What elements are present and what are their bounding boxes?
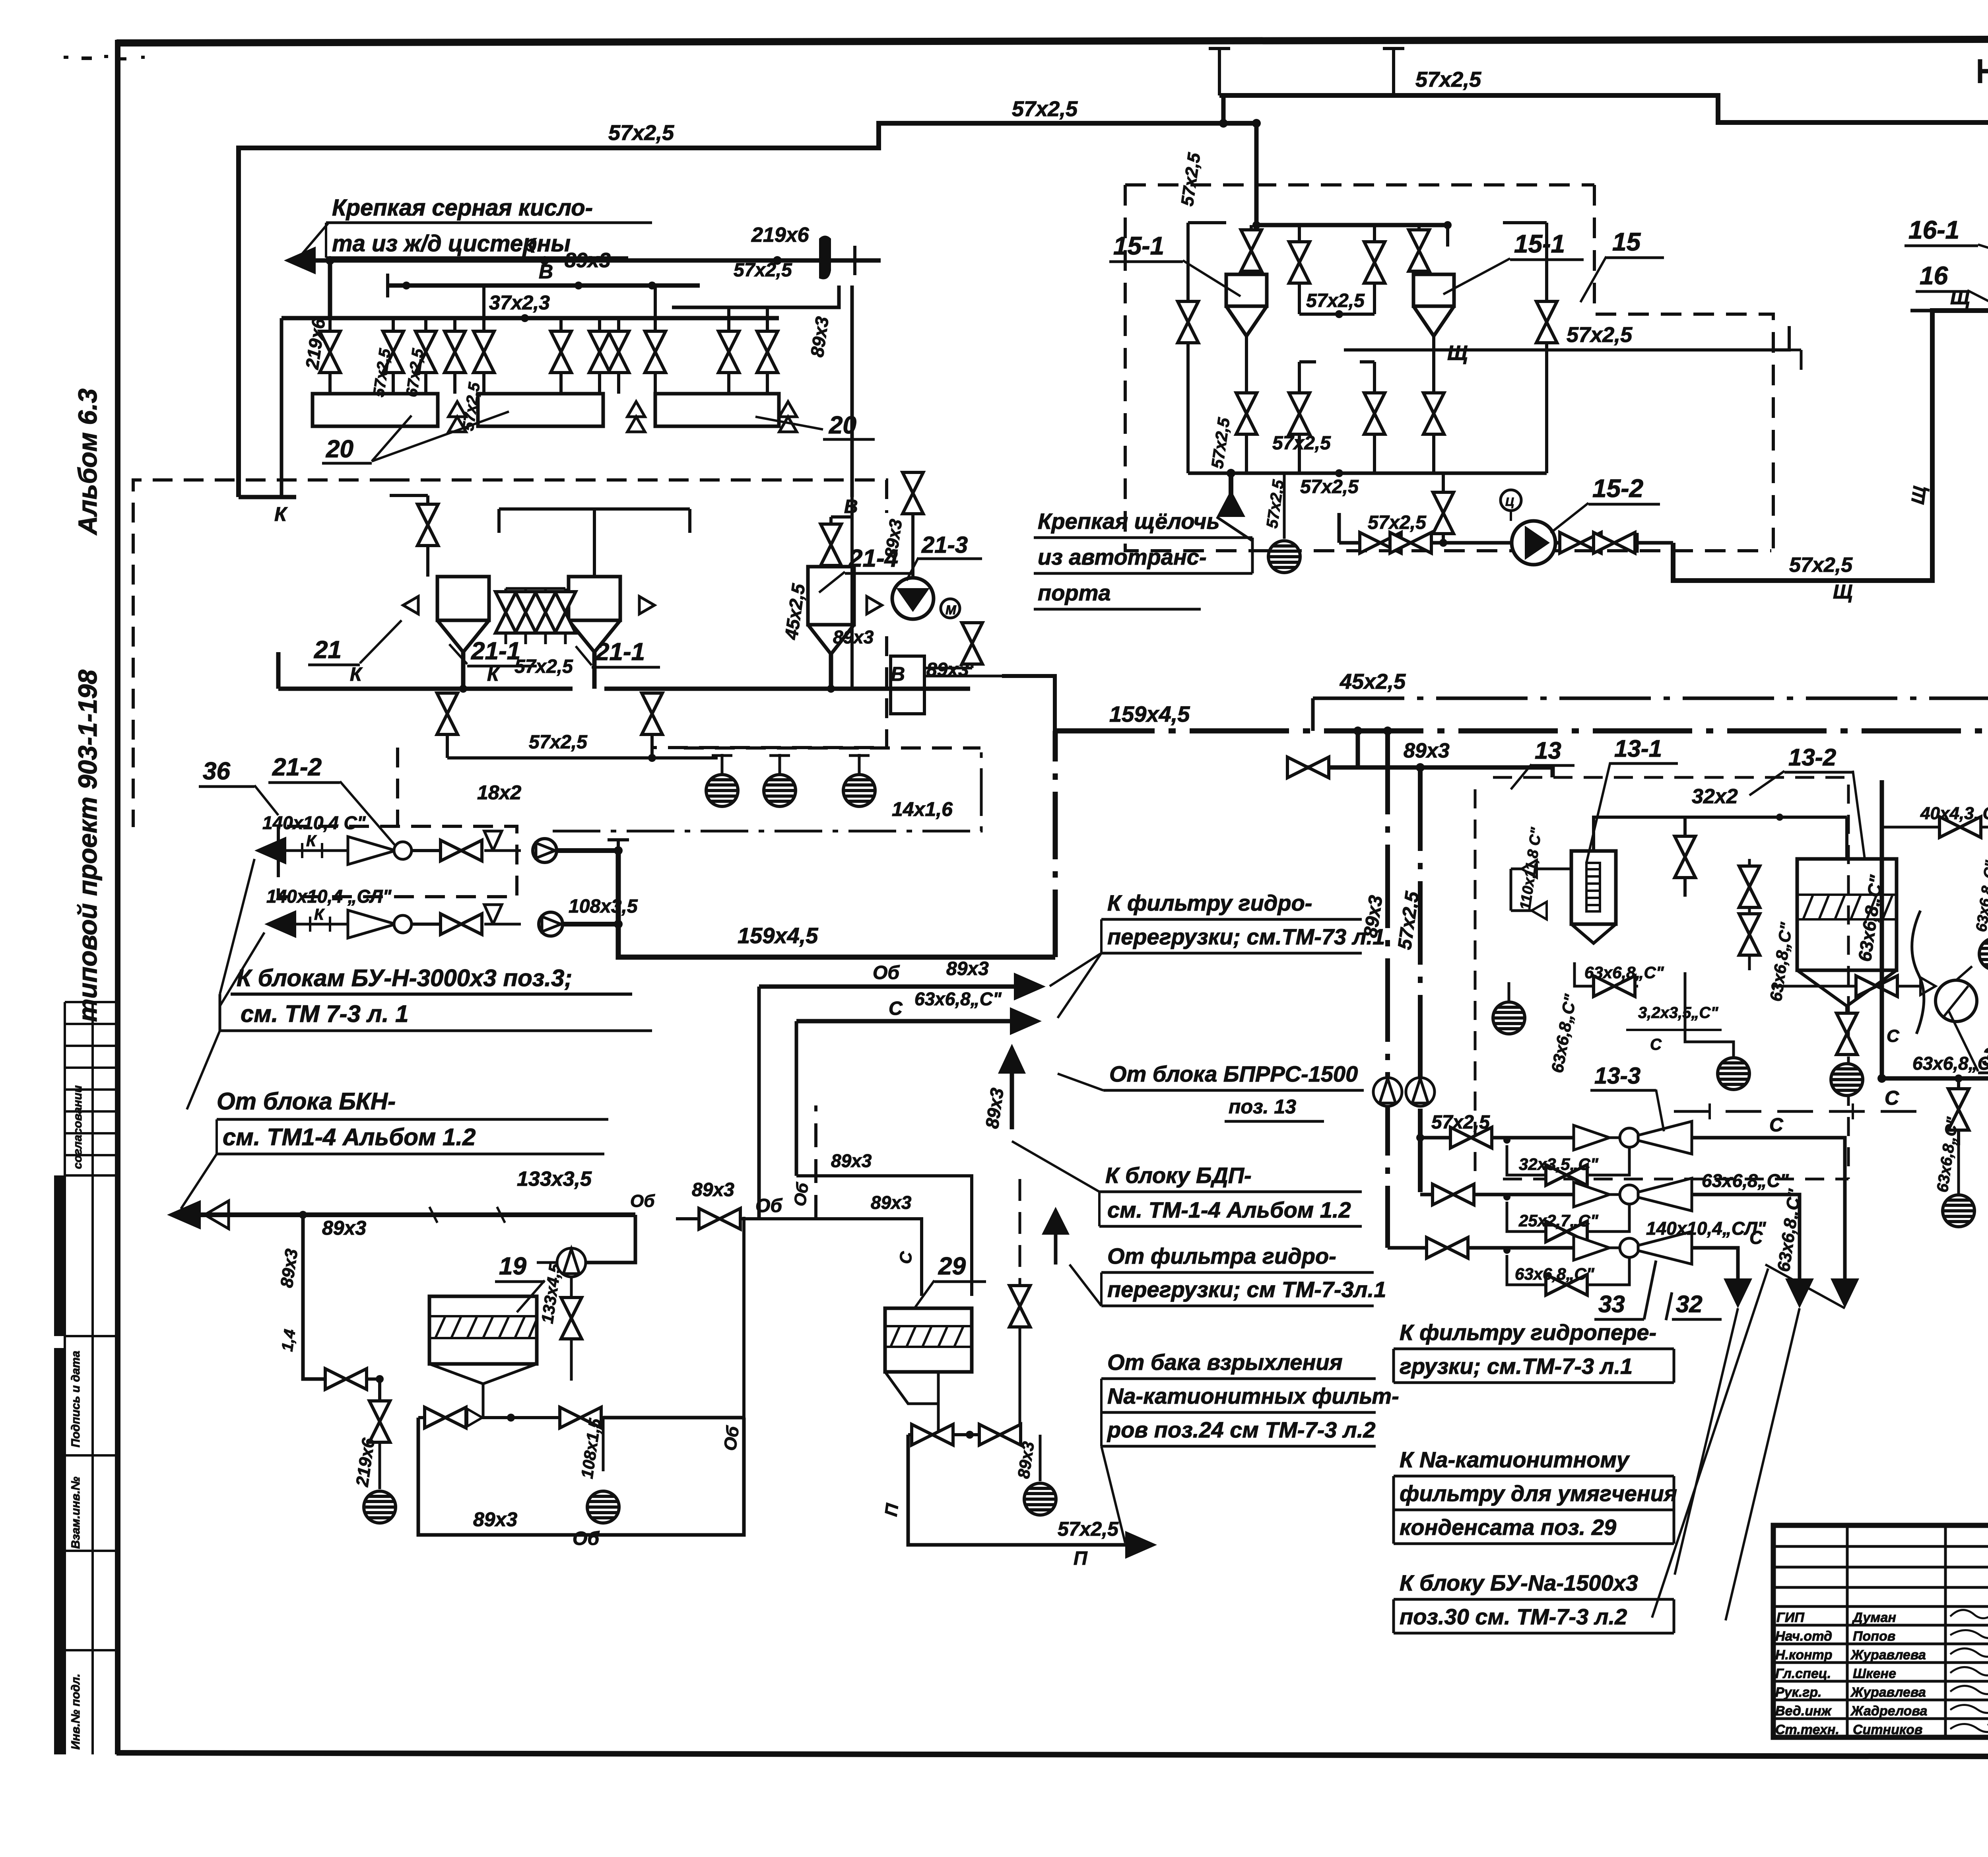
wire: 57x2,5 between tanks — [1299, 313, 1375, 316]
valve — [821, 524, 841, 565]
valve — [1939, 817, 1981, 837]
svg-text:57x2,5: 57x2,5 — [1789, 554, 1853, 577]
drain strainer — [1268, 541, 1300, 573]
svg-text:К: К — [523, 234, 537, 257]
svg-text:В: В — [891, 663, 905, 685]
arrow up-left of От фильтра — [1054, 1235, 1058, 1265]
drain strainer — [706, 775, 738, 806]
svg-text:С: С — [889, 998, 903, 1019]
wire: Об line from 19 up-right — [676, 1217, 816, 1418]
svg-text:140x10,4 „СЛ": 140x10,4 „СЛ" — [266, 886, 392, 907]
svg-text:16-1: 16-1 — [1908, 216, 1959, 244]
svg-text:57x2,5: 57x2,5 — [1567, 323, 1633, 347]
filter 13-1 small — [1571, 851, 1616, 924]
risers from manifold to tanks with valves — [330, 286, 767, 394]
svg-text:К: К — [306, 832, 317, 850]
svg-text:159x4,5: 159x4,5 — [738, 923, 818, 948]
valve — [383, 331, 404, 373]
wire: pump suction line — [1339, 513, 1511, 543]
side verticals with valves — [1188, 223, 1547, 473]
svg-text:Об: Об — [573, 1528, 600, 1549]
valve — [1594, 532, 1635, 553]
valve — [1433, 492, 1454, 534]
valve — [320, 331, 340, 373]
svg-text:21-3: 21-3 — [921, 532, 968, 558]
svg-text:89x3: 89x3 — [565, 249, 611, 272]
wire: pump 18 line — [1882, 1076, 1988, 1081]
drain strainer — [1831, 1064, 1863, 1096]
valve — [699, 1208, 740, 1229]
Об / С arrows into texts — [759, 985, 1014, 989]
check triangles between tanks — [448, 402, 797, 432]
valve — [474, 331, 494, 373]
pump on 19 — [584, 1215, 635, 1263]
wire: alkali inlet drop — [1229, 473, 1233, 499]
svg-text:К фильтру гидропере-: К фильтру гидропере- — [1400, 1320, 1656, 1345]
svg-text:32x2: 32x2 — [1692, 785, 1738, 808]
hatched circle top — [1979, 938, 1988, 970]
drain with stem — [1283, 473, 1286, 539]
row 2 — [264, 910, 296, 938]
svg-text:К блоку БДП-: К блоку БДП- — [1105, 1163, 1252, 1188]
wire: riser to top pipe — [1221, 95, 1226, 123]
valve — [535, 592, 556, 633]
valve — [369, 1401, 390, 1442]
valve — [1287, 757, 1329, 778]
main title block — [1773, 1525, 1988, 1737]
drain strainer — [764, 775, 796, 806]
pump 21-3 — [911, 471, 914, 578]
dashed boundary block 15 — [1125, 185, 1773, 551]
4 valves between 21-1 tanks — [495, 592, 516, 633]
signatures squiggles — [1950, 1601, 1988, 1732]
riser with 219x6 drain — [378, 1379, 381, 1416]
pump — [1406, 1078, 1435, 1106]
С dashes — [1674, 1110, 1932, 1113]
valve — [425, 1407, 466, 1428]
svg-text:К: К — [274, 503, 288, 525]
svg-text:перегрузки; см.ТМ-73 л.1: перегрузки; см.ТМ-73 л.1 — [1107, 924, 1385, 949]
svg-text:89x3: 89x3 — [322, 1217, 366, 1239]
svg-text:32: 32 — [1676, 1291, 1703, 1317]
hatched circle near 13 — [1718, 1058, 1749, 1090]
filter 19 — [429, 1296, 537, 1364]
svg-text:порта: порта — [1038, 580, 1111, 605]
long diagonal leaders — [1675, 1265, 1845, 1620]
valve — [589, 331, 610, 373]
svg-text:15-2: 15-2 — [1592, 474, 1643, 503]
valve — [415, 331, 436, 373]
wire: main 159x4,5 dash-dot run — [1055, 728, 1988, 734]
valve — [1409, 230, 1429, 271]
tank 20 row rects — [313, 394, 779, 426]
svg-text:см. ТМ-1-4 Альбом 1.2: см. ТМ-1-4 Альбом 1.2 — [1107, 1197, 1351, 1222]
32x2 line above — [1594, 817, 1685, 851]
arrow K inlet — [284, 247, 316, 274]
wire: K collect line in block 21 — [278, 652, 594, 689]
svg-text:15-1: 15-1 — [1514, 229, 1565, 258]
arrow БКН inlet — [167, 1200, 201, 1230]
svg-text:57x2,5: 57x2,5 — [1058, 1518, 1119, 1540]
wire: 133x3,5 main horizontal — [201, 1212, 635, 1217]
svg-text:Подпись и дата: Подпись и дата — [69, 1351, 82, 1447]
svg-text:159x4,5: 159x4,5 — [1109, 701, 1190, 726]
valve — [1948, 1089, 1969, 1130]
svg-text:89x3: 89x3 — [1404, 739, 1450, 762]
svg-text:89x3: 89x3 — [473, 1508, 517, 1531]
three outlet arrows — [1724, 1278, 1752, 1308]
wire: K line into block 21 — [239, 495, 296, 499]
svg-text:Альбом 6.3: Альбом 6.3 — [73, 388, 102, 536]
wire: end stubs near frame — [1209, 47, 1230, 95]
svg-text:Щ: Щ — [1833, 581, 1852, 603]
wire: П loop — [908, 1435, 1125, 1545]
svg-text:Журавлева: Журавлева — [1850, 1647, 1926, 1663]
wire: bottom manifold — [1188, 472, 1547, 475]
svg-text:Жадрелова: Жадрелова — [1850, 1704, 1927, 1719]
svg-text:К блокам БУ-Н-3000х3 поз.3;: К блокам БУ-Н-3000х3 поз.3; — [237, 965, 572, 991]
svg-text:29: 29 — [938, 1253, 966, 1280]
drain circles row — [712, 754, 870, 775]
svg-text:57x2,5: 57x2,5 — [1431, 1112, 1490, 1133]
svg-text:63x6,8„С": 63x6,8„С" — [1515, 1265, 1595, 1283]
svg-text:Попов: Попов — [1853, 1629, 1895, 1644]
svg-text:Рук.гр.: Рук.гр. — [1775, 1685, 1822, 1700]
svg-text:согласовании: согласовании — [71, 1085, 84, 1169]
wire: big 57x2,5 loop left vertical + top run — [239, 123, 1256, 497]
tank 21-4 — [808, 567, 854, 654]
svg-text:57x2,5: 57x2,5 — [734, 260, 792, 281]
svg-text:16: 16 — [1920, 261, 1948, 290]
svg-text:От бака взрыхления: От бака взрыхления — [1107, 1350, 1343, 1375]
dashed boundary block 13 — [1475, 777, 1848, 1179]
valve — [1837, 1013, 1857, 1055]
svg-text:К фильтру гидро-: К фильтру гидро- — [1107, 890, 1312, 915]
wire: collector vertical + 159x4,5 main run — [618, 851, 1055, 957]
svg-text:20: 20 — [829, 412, 856, 439]
svg-text:57x2,5: 57x2,5 — [1415, 68, 1481, 91]
risers with valves to tank tops — [1251, 225, 1448, 314]
svg-text:От фильтра гидро-: От фильтра гидро- — [1107, 1243, 1336, 1268]
svg-text:От блока БКН-: От блока БКН- — [217, 1088, 396, 1115]
sidebar hatched strip — [54, 1175, 65, 1754]
svg-text:1,4: 1,4 — [278, 1328, 299, 1352]
hook shape right of 20 — [819, 236, 831, 280]
valve — [912, 1424, 953, 1445]
wire: Щ dashes entry — [1910, 309, 1932, 313]
svg-text:К: К — [350, 664, 363, 685]
valve — [1364, 242, 1385, 283]
valve — [608, 331, 629, 373]
valve — [1360, 532, 1401, 553]
valve — [325, 1369, 367, 1389]
valve — [1236, 393, 1257, 434]
svg-text:С: С — [1885, 1087, 1899, 1109]
pump — [557, 1248, 586, 1277]
svg-text:13: 13 — [1535, 737, 1561, 764]
valve — [1423, 393, 1444, 434]
wire: pump discharge Щ route — [1673, 311, 1988, 581]
svg-text:13-3: 13-3 — [1594, 1063, 1640, 1089]
valve — [903, 472, 923, 514]
bottom of 13-2 — [1845, 1006, 1848, 1054]
wire: 159 riser upper part to small rect — [1002, 676, 1055, 731]
drain strainer — [1943, 1195, 1974, 1227]
wire: B line lower right — [604, 654, 970, 689]
valve — [1536, 301, 1557, 343]
valve — [1178, 301, 1198, 343]
svg-text:Об: Об — [630, 1191, 655, 1211]
wire: feed manifold into tanks — [1256, 123, 1448, 225]
svg-text:13-1: 13-1 — [1614, 735, 1662, 762]
svg-text:57x2,5: 57x2,5 — [1272, 433, 1331, 454]
svg-text:ров поз.24 см ТМ-7-3 л.2: ров поз.24 см ТМ-7-3 л.2 — [1107, 1417, 1376, 1442]
valve — [1546, 1221, 1587, 1242]
side check triangles — [403, 596, 882, 614]
wire: K line — [314, 258, 881, 263]
wire: riser B down right side — [850, 286, 854, 497]
svg-text:108x3,5: 108x3,5 — [569, 896, 638, 917]
svg-text:К блоку БУ-Nа-1500х3: К блоку БУ-Nа-1500х3 — [1400, 1570, 1638, 1595]
valve — [1390, 532, 1431, 553]
text: acid label — [298, 223, 652, 258]
svg-text:57x2,5: 57x2,5 — [1012, 97, 1078, 121]
riser with drain under pump line — [1957, 1078, 1960, 1145]
valve — [1560, 532, 1601, 553]
valve — [1594, 976, 1635, 996]
drain strainer — [364, 1491, 396, 1523]
svg-text:В: В — [539, 260, 553, 283]
wire: manifold 37x2,5 — [282, 316, 779, 321]
valve — [979, 1424, 1021, 1445]
bottom manifold of 29 — [885, 1372, 938, 1435]
svg-text:С: С — [1650, 1036, 1662, 1053]
svg-text:25x2,7„С": 25x2,7„С" — [1518, 1211, 1599, 1230]
valve — [1450, 1127, 1492, 1148]
wire: 45x2,5 line — [1313, 697, 1988, 700]
drain strainer — [587, 1491, 619, 1523]
valve — [441, 840, 482, 861]
wire: left branch down — [303, 1215, 324, 1379]
filter bottom manifold — [429, 1364, 537, 1418]
svg-text:19: 19 — [499, 1253, 526, 1280]
side valve — [1019, 1179, 1021, 1288]
svg-text:15: 15 — [1612, 227, 1641, 256]
svg-text:20: 20 — [326, 435, 353, 463]
svg-text:89x3: 89x3 — [692, 1179, 734, 1200]
svg-text:Щ: Щ — [1950, 286, 1970, 309]
wire: left C line vertical — [1880, 780, 1884, 1078]
pump 15-2 — [1512, 521, 1555, 565]
valve — [551, 331, 571, 373]
valve — [445, 331, 465, 373]
valve — [1856, 976, 1897, 996]
valve — [1739, 866, 1760, 907]
svg-text:поз.30 см. ТМ-7-3 л.2: поз.30 см. ТМ-7-3 л.2 — [1400, 1604, 1627, 1629]
svg-text:Думан: Думан — [1852, 1610, 1896, 1625]
bypass 32x3,5 — [1507, 1145, 1629, 1175]
funnel outlet risers + lower valves — [1246, 336, 1434, 473]
wire: B vertical link in block 21 — [850, 497, 854, 689]
svg-text:ГИП: ГИП — [1776, 1610, 1805, 1625]
svg-text:3,2x3,5„С": 3,2x3,5„С" — [1638, 1004, 1718, 1022]
svg-text:поз. 13: поз. 13 — [1229, 1096, 1296, 1118]
left sidebar table — [65, 1002, 118, 1754]
svg-text:36: 36 — [203, 758, 230, 785]
svg-text:К: К — [487, 664, 500, 685]
filter 13-2 big — [1797, 859, 1897, 970]
svg-text:Об: Об — [873, 962, 900, 983]
tank 15-1 left — [1226, 274, 1267, 336]
valves right of pump — [1555, 541, 1673, 545]
svg-text:Крепкая щёлочь: Крепкая щёлочь — [1038, 509, 1220, 534]
svg-text:89x3: 89x3 — [871, 1192, 912, 1213]
svg-text:Нач.отд: Нач.отд — [1775, 1629, 1832, 1644]
svg-text:Об: Об — [720, 1424, 743, 1452]
svg-text:32x3,5„С": 32x3,5„С" — [1519, 1155, 1599, 1173]
pumps on vertical mains — [1373, 1078, 1402, 1106]
svg-text:типовой проект 903-1-198: типовой проект 903-1-198 — [73, 670, 102, 1022]
svg-text:из автотранс-: из автотранс- — [1038, 544, 1207, 569]
svg-text:Ситников: Ситников — [1853, 1722, 1922, 1737]
svg-text:М: М — [945, 603, 957, 617]
svg-text:см. ТМ1-4 Альбом 1.2: см. ТМ1-4 Альбом 1.2 — [223, 1124, 476, 1150]
tanks 21-1 — [437, 577, 620, 652]
loop to Об — [418, 1418, 744, 1535]
feeds into tanks — [390, 495, 852, 577]
svg-text:Ст.техн.: Ст.техн. — [1775, 1722, 1839, 1737]
svg-text:Вед.инж: Вед.инж — [1775, 1704, 1832, 1719]
wire: B line — [388, 284, 700, 288]
small equipment rect right of 21 — [891, 656, 924, 714]
svg-text:К Nа-катионитному: К Nа-катионитному — [1400, 1447, 1630, 1472]
svg-text:С: С — [1769, 1115, 1784, 1136]
svg-text:63x6,8„С": 63x6,8„С" — [1702, 1170, 1789, 1191]
svg-text:От блока БПРРС-1500: От блока БПРРС-1500 — [1109, 1061, 1358, 1086]
valve — [1241, 230, 1262, 271]
wire: 89x3 branch from main — [1353, 726, 1362, 735]
valve — [757, 331, 778, 373]
svg-text:37x2,3: 37x2,3 — [489, 291, 550, 314]
wire: 14x1,6 line — [553, 750, 981, 831]
svg-text:перегрузки; см ТМ-7-3л.1: перегрузки; см ТМ-7-3л.1 — [1107, 1277, 1386, 1302]
svg-text:21: 21 — [314, 636, 342, 664]
svg-text:Журавлева: Журавлева — [1850, 1685, 1926, 1700]
valve — [1289, 393, 1310, 434]
wire: xx line top right — [1980, 59, 1988, 83]
svg-text:89x3: 89x3 — [946, 958, 989, 979]
valve — [561, 1298, 582, 1339]
svg-text:Крепкая серная кисло-: Крепкая серная кисло- — [332, 195, 593, 221]
svg-text:57x2,5: 57x2,5 — [1300, 476, 1359, 497]
valve — [1427, 1237, 1468, 1258]
valve — [1546, 1165, 1587, 1185]
svg-text:18x2: 18x2 — [477, 781, 521, 804]
108x3,5 drain stub — [602, 1418, 605, 1471]
valve — [962, 623, 982, 664]
wire: 159 vertical rise to main line — [1053, 731, 1058, 957]
svg-text:Об: Об — [790, 1181, 812, 1208]
svg-text:45x2,5: 45x2,5 — [1340, 670, 1406, 693]
svg-text:К: К — [314, 906, 325, 923]
row 1 — [1420, 1136, 1574, 1140]
wire: right manifold to 3rd tank — [672, 286, 839, 307]
valve — [437, 693, 458, 734]
drain on 29 — [1039, 1435, 1042, 1481]
drain strainer — [1024, 1483, 1056, 1515]
row 2 — [1420, 1193, 1574, 1197]
svg-text:Nа-катионитных фильт-: Nа-катионитных фильт- — [1107, 1383, 1399, 1408]
svg-text:14x1,6: 14x1,6 — [892, 798, 953, 820]
valve — [718, 331, 739, 373]
valve — [515, 592, 536, 633]
svg-text:57x2,5: 57x2,5 — [608, 121, 674, 145]
svg-text:63x6,8„С": 63x6,8„С" — [1912, 1053, 1988, 1074]
svg-text:фильтру для умягчения: фильтру для умягчения — [1400, 1481, 1677, 1506]
valve — [1546, 1274, 1587, 1295]
svg-text:57x2,5: 57x2,5 — [1306, 290, 1365, 311]
svg-text:Ц: Ц — [1505, 495, 1514, 509]
valve — [642, 693, 662, 734]
wire: riser 219x6 from K to manifold — [328, 260, 332, 318]
svg-text:см. ТМ 7-3 л. 1: см. ТМ 7-3 л. 1 — [241, 1000, 409, 1027]
valves column left of 13-2 — [1748, 859, 1751, 970]
valve — [1364, 393, 1385, 434]
svg-text:Н.контр: Н.контр — [1775, 1647, 1833, 1663]
svg-text:П: П — [1074, 1548, 1088, 1569]
svg-text:140x10,4 С": 140x10,4 С" — [262, 812, 366, 833]
13-2 top feed — [1685, 817, 1847, 859]
wire: 57x2,5 bypass under tanks — [447, 734, 718, 758]
valve — [1010, 1286, 1030, 1327]
hatched circle below left — [1493, 1002, 1525, 1034]
svg-text:63x6,8„С": 63x6,8„С" — [914, 989, 1002, 1009]
svg-text:15-1: 15-1 — [1113, 231, 1164, 260]
svg-text:33: 33 — [1598, 1291, 1625, 1317]
tank 15-1 right — [1413, 274, 1454, 336]
wire: top pipe 57x2,5 to right — [1219, 95, 1988, 122]
svg-text:21-1: 21-1 — [595, 638, 645, 666]
svg-text:Щ: Щ — [1907, 485, 1930, 505]
valve — [555, 592, 576, 633]
wire: Щ line from tanks — [1344, 326, 1789, 350]
valve — [417, 504, 438, 546]
valve — [1675, 836, 1695, 878]
valve — [645, 331, 666, 373]
svg-text:140x10,4„СЛ": 140x10,4„СЛ" — [1646, 1218, 1767, 1239]
up arrow 89x3 — [1010, 1074, 1014, 1129]
svg-text:21-2: 21-2 — [272, 754, 322, 781]
valve — [1739, 914, 1760, 955]
svg-text:грузки; см.ТМ-7-3 л.1: грузки; см.ТМ-7-3 л.1 — [1400, 1354, 1633, 1379]
svg-text:Инв.№ подл.: Инв.№ подл. — [69, 1674, 82, 1750]
svg-text:21-1: 21-1 — [471, 637, 520, 665]
row 3 — [1388, 1246, 1574, 1250]
wavy line + 34 — [1912, 911, 1924, 1034]
valve — [441, 914, 482, 934]
svg-text:57x2,5: 57x2,5 — [514, 656, 573, 677]
svg-text:Взам.инв.№: Взам.инв.№ — [69, 1477, 82, 1549]
feed arrows into 13-1 — [1511, 869, 1571, 911]
valve — [560, 1407, 601, 1428]
row 1 — [254, 837, 286, 864]
top-left speckle dots — [64, 55, 145, 60]
svg-text:57x2,5: 57x2,5 — [1368, 512, 1427, 533]
svg-text:конденсата поз. 29: конденсата поз. 29 — [1400, 1515, 1616, 1540]
svg-text:89x3: 89x3 — [831, 1150, 872, 1171]
svg-text:133x3,5: 133x3,5 — [517, 1167, 592, 1191]
svg-text:13-2: 13-2 — [1788, 744, 1836, 771]
